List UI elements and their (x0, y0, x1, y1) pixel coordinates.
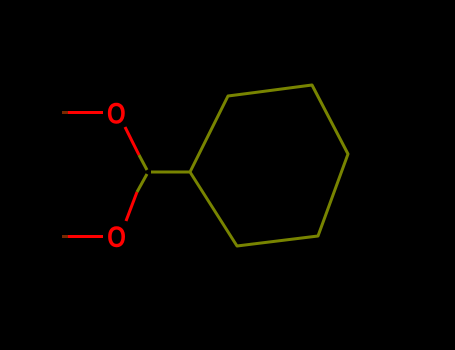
wire bond O1-CH green half (139, 155, 147, 170)
wire bond CH-C1 attachment to ring (151, 171, 190, 174)
svg-text:O: O (107, 96, 126, 130)
methyl line CH3 bottom (68, 235, 103, 238)
wire bond O1-CH red half (125, 127, 139, 155)
methyl line CH3 top (dark tail) (62, 111, 69, 114)
wire bond O2-CH red half (126, 192, 137, 221)
wire bond O2-CH green half (137, 174, 147, 192)
methyl line CH3 bottom (dark tail) (62, 235, 69, 238)
methyl line CH3 top (68, 111, 103, 114)
ring cyclohexane hexagon (190, 85, 348, 246)
svg-text:O: O (107, 220, 126, 254)
